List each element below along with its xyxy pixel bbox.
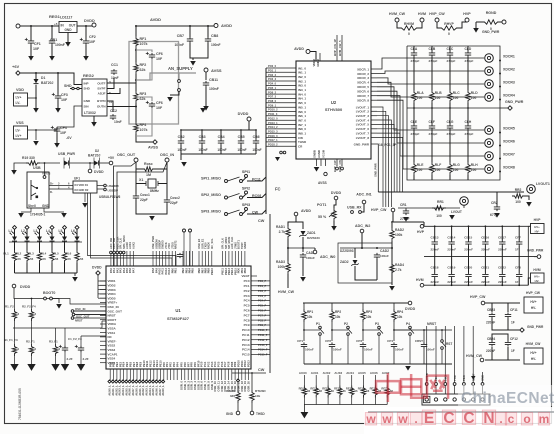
svg-text:AUX3: AUX3 <box>334 371 342 375</box>
wire U2 input bus <box>265 68 267 214</box>
wire NRST jumper to U1 <box>74 317 106 319</box>
terminal GND_PWR xdcr <box>505 100 524 110</box>
svg-text:270pF: 270pF <box>411 132 420 136</box>
terminal HVM grid <box>416 278 424 287</box>
svg-text:107k: 107k <box>140 42 148 46</box>
svg-text:D1: D1 <box>41 76 45 80</box>
svg-text:HVM_CW: HVM_CW <box>466 354 483 358</box>
connector HVP <box>531 218 545 234</box>
svg-text:CC1: CC1 <box>111 63 118 67</box>
svg-text:1734035-1: 1734035-1 <box>30 213 45 217</box>
wire CB row to ground <box>180 154 182 160</box>
junction adc2 <box>361 247 393 249</box>
junction CF8 bottom <box>518 284 520 286</box>
ground BOOT0 <box>56 304 62 309</box>
net labels above U1 at x=153 <box>151 236 177 249</box>
connector HVM_CW <box>524 342 543 364</box>
svg-text:PO10_2: PO10_2 <box>268 108 278 112</box>
wire to CB1 <box>51 26 53 40</box>
svg-text:TCK: TCK <box>453 375 457 381</box>
svg-text:100k: 100k <box>395 233 403 237</box>
ground CR1 <box>403 217 409 222</box>
svg-text:LT3032: LT3032 <box>84 111 96 115</box>
junction RLC <box>449 107 451 109</box>
svg-text:XDCR4: XDCR4 <box>503 94 515 98</box>
resistor RE1A 56 <box>310 386 322 398</box>
wire BYPN CC2 <box>107 101 113 112</box>
resistor RE1B 56 <box>322 386 334 398</box>
svg-text:220nF: 220nF <box>486 321 495 325</box>
label 1M <box>146 173 151 177</box>
junction CB13 <box>434 225 436 227</box>
svg-text:USB_RX: USB_RX <box>347 206 362 210</box>
wire CLH down <box>467 130 469 162</box>
wire f1 dn 31.5 <box>31 356 33 364</box>
svg-text:LVOUT_8: LVOUT_8 <box>356 136 370 140</box>
regulator REG1 LD1117 <box>59 22 77 33</box>
wire c2f2 top <box>64 328 66 346</box>
svg-text:330: 330 <box>230 394 235 398</box>
wire RHVM right <box>419 22 422 28</box>
junction RP4 <box>393 329 395 331</box>
ic U2 bottom pins left group <box>313 149 326 166</box>
wire CLE down <box>413 130 415 162</box>
svg-text:CRST: CRST <box>415 339 423 343</box>
svg-text:PC11: PC11 <box>242 333 250 337</box>
wire osc right <box>166 162 168 198</box>
ground USB gnd2 <box>61 213 67 218</box>
terminal GND_PWR grid <box>527 249 544 259</box>
label HVM <box>418 12 426 16</box>
jumper NRST u1 <box>71 317 83 323</box>
svg-text:CF8: CF8 <box>515 266 521 270</box>
wire osc left <box>135 162 137 194</box>
wire XDCR_8 net <box>377 100 484 169</box>
label -6V <box>66 136 72 140</box>
wire rst dn <box>441 350 443 365</box>
wire to CF6b <box>136 97 152 101</box>
label NRST bottom <box>427 322 437 326</box>
ground CF2 <box>83 56 89 61</box>
svg-text:C: C <box>443 410 454 427</box>
net labels above U1 cluster A <box>109 235 135 249</box>
svg-text:N: N <box>483 410 494 427</box>
wire hvp_cw drop <box>392 212 394 222</box>
ic U2 pin GND_PWR <box>354 142 377 146</box>
svg-text:PC13: PC13 <box>242 343 250 347</box>
svg-text:I2C_SCL: I2C_SCL <box>210 238 214 249</box>
label 1734035-1 <box>30 213 45 217</box>
svg-text:CB11: CB11 <box>209 78 218 82</box>
terminal OSC_OUT <box>117 153 138 162</box>
capacitor CLG 270pF <box>447 120 456 136</box>
svg-text:PE4: PE4 <box>122 361 126 367</box>
wire LVOUT_7 route <box>377 133 400 192</box>
svg-text:ADC_IN1: ADC_IN1 <box>356 193 371 197</box>
wire usbrx <box>362 204 365 212</box>
label SPI1_MISO <box>201 177 221 181</box>
svg-text:GND_PWR: GND_PWR <box>374 163 378 177</box>
ground CAD1 <box>300 277 306 282</box>
svg-text:270pF: 270pF <box>465 59 474 63</box>
junction RLA <box>413 107 415 109</box>
svg-text:CF11: CF11 <box>510 308 518 312</box>
svg-text:RST: RST <box>446 342 452 346</box>
terminal DVDD <box>84 19 96 27</box>
wire rosc join left <box>136 168 142 170</box>
svg-text:GNDB: GNDB <box>313 150 317 158</box>
svg-text:XDCR7: XDCR7 <box>503 153 515 157</box>
junction RP3 <box>362 329 364 331</box>
wire to CF6a <box>136 50 152 52</box>
wire rad5 down <box>287 274 289 288</box>
wire CR2 up <box>496 192 498 205</box>
capacitor CR1 270pF <box>400 203 410 221</box>
svg-text:10k: 10k <box>335 315 341 319</box>
connector VDD <box>14 93 28 106</box>
capacitor C2_F2 2.2F <box>59 345 73 361</box>
svg-text:LV-: LV- <box>16 101 21 105</box>
wire L3 mid <box>39 242 41 251</box>
wire XDCR_6 net <box>377 91 484 143</box>
svg-text:CB18: CB18 <box>431 266 439 270</box>
label AVDD net <box>150 17 161 22</box>
wire f1 dn 55.5 <box>55 356 57 364</box>
ground CF3 <box>55 108 61 113</box>
svg-text:PC7: PC7 <box>244 313 250 317</box>
svg-text:RE7: RE7 <box>381 387 387 391</box>
svg-text:GND_PWR: GND_PWR <box>527 325 544 329</box>
wire RP1 dn <box>303 322 305 341</box>
wire CB4 top <box>220 130 222 139</box>
wire grid top rail <box>424 225 528 227</box>
label LVOUT <box>451 210 462 214</box>
svg-text:10F: 10F <box>60 131 67 135</box>
connector HVM <box>531 268 545 283</box>
svg-text:220nF: 220nF <box>486 349 495 353</box>
capacitor CB11 <box>203 78 219 91</box>
junction CF7 <box>518 225 520 227</box>
resistor RL4 56 <box>41 250 59 263</box>
svg-text:R2_F1: R2_F1 <box>26 340 35 344</box>
svg-text:10nF: 10nF <box>114 120 122 124</box>
svg-text:PO17_1: PO17_1 <box>268 138 278 142</box>
svg-text:CW: CW <box>258 219 265 223</box>
wire AN_SUPPLY from divider <box>136 73 163 80</box>
wire aux gnd rail <box>304 404 387 406</box>
svg-text:RSHD: RSHD <box>226 389 236 393</box>
ground R3_F1 <box>51 364 59 371</box>
svg-text:L2: L2 <box>21 229 25 233</box>
svg-text:AUX2: AUX2 <box>323 371 331 375</box>
ground R1_F1 <box>10 364 18 371</box>
wire L2 mid <box>26 242 28 251</box>
wire AVDD to RF1 <box>135 26 137 36</box>
svg-text:CF6: CF6 <box>156 52 163 56</box>
svg-text:XDCR_7: XDCR_7 <box>357 94 369 98</box>
wire CF8 top <box>518 257 520 273</box>
wire USBDP descent <box>91 193 173 266</box>
svg-text:62k: 62k <box>140 97 146 101</box>
svg-text:FC: FC <box>275 187 281 192</box>
led L4 <box>47 231 55 241</box>
wire L6 top <box>76 230 78 237</box>
capacitor CB5 <box>237 135 246 152</box>
svg-text:B1_F1_F3: B1_F1_F3 <box>4 338 18 342</box>
svg-text:D-: D- <box>50 190 53 194</box>
terminal AVDD adc <box>294 209 311 216</box>
wire RLH bottom <box>467 175 469 180</box>
label BAT20J <box>41 81 53 85</box>
wire CB13 top <box>434 226 436 240</box>
svg-text:GND: GND <box>226 412 234 416</box>
svg-text:CAD2: CAD2 <box>380 249 389 253</box>
svg-text:PD10: PD10 <box>237 360 241 367</box>
svg-text:1F: 1F <box>515 248 519 252</box>
wire LVOUT_4 route <box>377 120 391 207</box>
svg-text:RHVP: RHVP <box>444 22 454 26</box>
junction mid divider <box>135 79 137 81</box>
ground REG1 <box>65 42 71 47</box>
ground R19 <box>11 170 17 175</box>
svg-text:IN1_1: IN1_1 <box>298 71 306 75</box>
junction VDD node <box>35 97 37 99</box>
net labels above U1 at x=199 <box>197 238 214 249</box>
wire P3 dn <box>378 336 380 365</box>
ic U2 STHV800 body <box>296 61 371 159</box>
svg-text:TDO: TDO <box>462 374 466 381</box>
wire CW bus <box>269 214 271 373</box>
svg-text:AUX5: AUX5 <box>358 371 366 375</box>
wire L1 mid <box>14 242 16 251</box>
svg-text:ChinaECNet: ChinaECNet <box>461 390 554 407</box>
wire CB16 top <box>484 226 486 240</box>
wire r19 left <box>14 163 26 170</box>
svg-text:HVM: HVM <box>533 268 541 272</box>
resistor RLC 100 <box>448 90 460 103</box>
capacitor CLD 270pF <box>465 47 474 63</box>
svg-text:AVSS: AVSS <box>318 181 328 185</box>
terminal DVDD pot <box>331 191 342 200</box>
wire RLC down <box>449 103 451 124</box>
junction CB15 <box>468 225 470 227</box>
wire term a drop <box>183 232 185 266</box>
wire dvdd rail u1 <box>14 288 59 299</box>
terminal HVP_CW mid <box>391 208 395 212</box>
wire rthsd top <box>251 373 253 390</box>
terminal +6V <box>16 71 20 75</box>
terminal RGND <box>502 20 506 24</box>
capacitor CLH 270pF <box>465 120 474 136</box>
net labels above U1 at x=222.5 <box>221 236 247 249</box>
junction outn <box>135 106 137 108</box>
wire hvm_cw rail <box>485 359 520 361</box>
wire SHD <box>70 88 82 90</box>
wire mid rail to U1 <box>101 321 103 328</box>
svg-text:CB1: CB1 <box>50 38 57 42</box>
svg-text:HVM_CW: HVM_CW <box>278 290 295 294</box>
svg-text:USBDM: USBDM <box>108 184 120 188</box>
svg-text:HVP_CW: HVP_CW <box>526 291 541 295</box>
svg-text:PF10: PF10 <box>196 360 200 367</box>
svg-text:RE3A: RE3A <box>358 387 365 391</box>
wire led cathode bar row <box>9 241 82 243</box>
capacitor CAD2 100nF <box>374 249 389 259</box>
switch RST <box>441 340 453 350</box>
junction CB4 <box>220 129 222 131</box>
svg-text:CB16: CB16 <box>481 236 489 240</box>
ground USB shell <box>18 213 24 218</box>
label PC11 <box>252 178 261 182</box>
wire hvp_cw rail <box>485 302 520 304</box>
terminal L3 <box>34 226 42 234</box>
junction RF top <box>135 25 137 27</box>
label SPI1 <box>242 170 250 174</box>
wire jumper gnd <box>170 91 179 95</box>
terminal AVSS bottom <box>148 140 159 150</box>
wire CP2 dn <box>331 349 333 365</box>
terminal GND thsd <box>226 411 240 416</box>
svg-text:RL3: RL3 <box>28 252 34 256</box>
svg-text:LVOUT: LVOUT <box>451 210 462 214</box>
wire r1f2 top <box>14 299 16 310</box>
svg-text:100nF: 100nF <box>217 148 226 152</box>
capacitor CB22 <box>498 266 507 285</box>
terminal LVOUT1 jack mid <box>460 197 469 206</box>
svg-text:55 %: 55 % <box>318 215 327 219</box>
svg-text:RAD3: RAD3 <box>276 260 285 264</box>
wire XDCR_7 net <box>377 96 484 156</box>
wire crst dn <box>423 349 425 365</box>
resistor RAD1 2.7k <box>276 225 290 239</box>
svg-text:CB21: CB21 <box>481 266 489 270</box>
svg-text:IN6_1: IN6_1 <box>298 114 306 118</box>
svg-text:REG2: REG2 <box>83 73 95 78</box>
svg-text:OUT: OUT <box>69 24 76 28</box>
svg-text:XDCR1: XDCR1 <box>503 55 515 59</box>
svg-text:RE1B: RE1B <box>322 387 329 391</box>
svg-text:LVOUT_2: LVOUT_2 <box>356 110 370 114</box>
svg-text:R19 330: R19 330 <box>22 156 35 160</box>
wire RP3 top <box>362 303 364 309</box>
svg-text:AVSS: AVSS <box>211 68 222 73</box>
connector HVP_CW <box>524 291 543 313</box>
svg-text:HV-: HV- <box>531 306 536 310</box>
wire CF7 top <box>518 226 520 240</box>
svg-text:CB17: CB17 <box>498 236 506 240</box>
svg-text:CB7: CB7 <box>177 34 184 38</box>
svg-text:HV-: HV- <box>535 279 540 283</box>
ground CF1 <box>28 56 34 61</box>
wire CF1 dn <box>30 45 32 56</box>
svg-text:RLD: RLD <box>471 91 478 95</box>
svg-text:OSC_IN: OSC_IN <box>160 153 174 157</box>
svg-text:HVP_CW: HVP_CW <box>429 12 445 16</box>
svg-text:10k: 10k <box>397 315 403 319</box>
svg-text:1F: 1F <box>511 321 515 325</box>
wire L5 mid <box>64 242 66 251</box>
svg-text:RTHSD: RTHSD <box>255 389 266 393</box>
ground REG2 <box>91 122 97 127</box>
capacitor CF6a <box>146 52 163 61</box>
resistor R2_F1 <box>26 340 37 357</box>
capacitor CB19 <box>447 266 456 285</box>
ground VSS <box>33 141 39 146</box>
jumper BOOT0 <box>44 297 53 300</box>
wire rshd dn <box>237 403 239 411</box>
svg-text:100nF: 100nF <box>198 148 207 152</box>
wire XDCR_2 net <box>377 71 484 74</box>
svg-text:2.7k: 2.7k <box>395 268 402 272</box>
svg-text:STM32F427: STM32F427 <box>167 316 190 321</box>
capacitor CB18 <box>431 266 440 285</box>
wire dvdd usb drop <box>89 163 91 169</box>
wire CB2 top <box>180 130 182 139</box>
wire DVDD drop <box>248 121 250 130</box>
junction input rail <box>30 25 53 27</box>
svg-text:LVOUT1: LVOUT1 <box>536 182 550 186</box>
wire AUX4 drop <box>351 375 353 386</box>
wire L6 mid <box>76 242 78 251</box>
terminal HVM_CW <box>395 18 399 22</box>
wire f1 top 31.5 <box>31 328 33 344</box>
wire rthsd dn <box>251 403 253 411</box>
svg-text:RE0A: RE0A <box>299 387 306 391</box>
svg-text:AN_SUPPLY: AN_SUPPLY <box>168 66 193 71</box>
svg-text:RAD4: RAD4 <box>395 263 404 267</box>
svg-text:OSC_OUT: OSC_OUT <box>117 153 136 157</box>
wire rshd top <box>237 382 239 390</box>
terminal SPI1 <box>245 175 248 178</box>
svg-text:RP2: RP2 <box>335 310 341 314</box>
wire LVOUT net horizontal <box>378 191 524 193</box>
label HVM_CW filt <box>466 354 483 358</box>
svg-text:8MHz: 8MHz <box>150 189 159 193</box>
ground GND_PWR top <box>473 28 500 34</box>
svg-text:56: 56 <box>43 257 47 261</box>
junction rthsd <box>251 372 253 374</box>
svg-text:100k: 100k <box>278 265 286 269</box>
title block text (vertical) <box>18 388 22 420</box>
svg-text:.: . <box>414 412 417 426</box>
capacitor CB4 <box>217 135 226 152</box>
wire L2 bottom <box>26 263 28 273</box>
svg-text:PO8_0: PO8_0 <box>268 99 277 103</box>
svg-text:270pF: 270pF <box>429 59 438 63</box>
label GND usb <box>42 204 50 208</box>
wire L3 top <box>39 230 41 237</box>
svg-text:SPI3: SPI3 <box>242 203 250 207</box>
wire f1 top 14.5 <box>14 328 16 344</box>
wire grid to HVM box <box>528 278 530 285</box>
resistor RE7 56 <box>381 386 393 398</box>
svg-text:GND_PWR: GND_PWR <box>527 249 544 253</box>
svg-text:D3 GND D2: D3 GND D2 <box>75 188 89 192</box>
switch P3 <box>375 322 383 335</box>
svg-text:CP4: CP4 <box>387 339 393 343</box>
jumper OSC_IN u1 <box>71 307 85 312</box>
svg-text:NRST: NRST <box>427 322 437 326</box>
wire CB15 top <box>468 226 470 240</box>
svg-text:PO2_2: PO2_2 <box>268 73 277 77</box>
wire RR2 to gnd <box>525 196 529 200</box>
capacitor CF2 <box>80 35 96 45</box>
led L2 <box>22 231 30 241</box>
svg-text:SPI2_MISO: SPI2_MISO <box>201 193 221 197</box>
svg-text:D2: D2 <box>95 149 99 153</box>
svg-text:GND_PWR: GND_PWR <box>505 100 524 104</box>
label HVP_CW filt <box>470 295 486 299</box>
